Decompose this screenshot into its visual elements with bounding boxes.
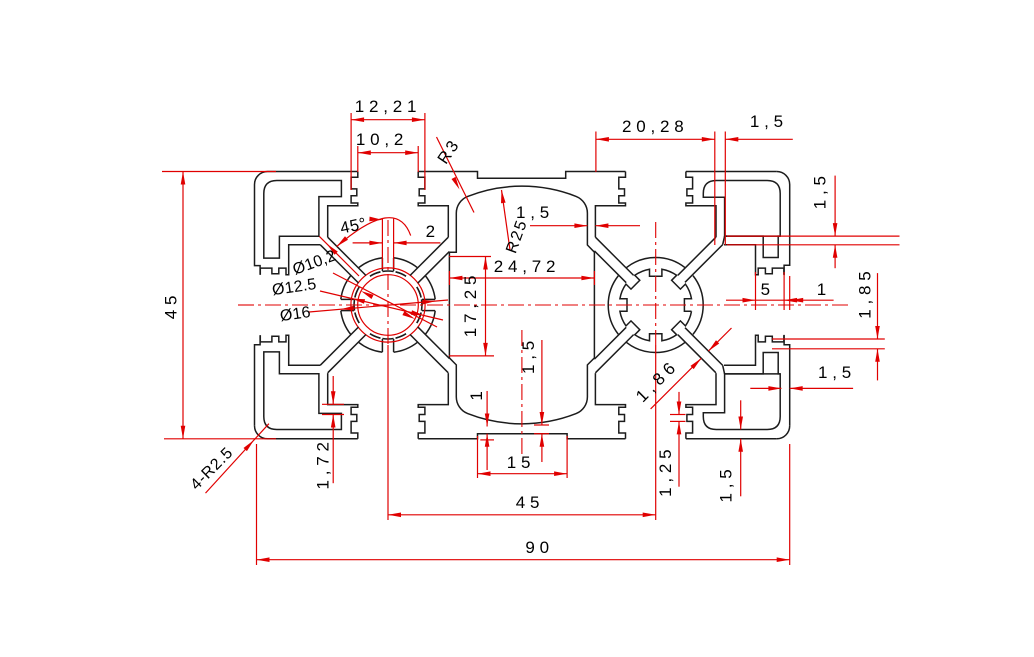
arrow 1,86 lower	[691, 358, 702, 369]
dim line 2 right part	[394, 242, 441, 244]
wire left face T-slot side B	[260, 245, 320, 275]
dim line 1,25 lower	[678, 421, 680, 486]
left boss E screw-channel entry	[422, 310, 435, 312]
leader 1,86 lower	[651, 358, 702, 409]
left bore grip ring arc	[417, 287, 421, 297]
left bore grip ring arc	[370, 334, 380, 338]
right bore vertical centerline	[655, 222, 657, 345]
wire right face T-slot side B	[724, 335, 784, 365]
arrow 1,72 upper	[331, 391, 336, 404]
ext tick 1,5 bottom-center top	[534, 424, 549, 426]
leader 1,86 upper	[708, 328, 731, 351]
arrow 20,28 right	[702, 137, 715, 142]
profile outer top-right corner arc	[777, 172, 790, 185]
dim line 1,5 tube wall right part	[595, 225, 640, 227]
dim line 1 upper	[486, 391, 488, 427]
arrow 1,5 bc lower	[540, 434, 545, 447]
left boss S screw-channel entry inner arc	[382, 338, 393, 340]
arrow 1,85 lower	[875, 349, 880, 362]
left boss W screw-channel entry inner arc	[353, 299, 355, 310]
left boss N screw-channel entry inner arc	[382, 270, 393, 272]
wire NE web to chamber connector	[723, 236, 725, 245]
ext line 24,72 right	[593, 271, 595, 285]
wire left boss SW web line B	[320, 327, 358, 365]
arrow 1,85 upper	[875, 326, 880, 339]
ext tick 17,25 top	[449, 256, 491, 258]
svg-text:1,5: 1,5	[717, 464, 736, 502]
ext line 12,21 right	[424, 113, 426, 190]
arrow D16 left	[341, 306, 354, 311]
wire left boss circle arc 4	[341, 311, 351, 335]
ext tick 1,72 bottom	[322, 414, 344, 416]
arrow 1 right	[790, 298, 803, 303]
left bore grip ring arc	[396, 272, 406, 276]
wire left boss NE web line B	[418, 252, 450, 284]
svg-text:1,85: 1,85	[856, 266, 875, 318]
wire right boss NW web line B	[594, 251, 626, 283]
arrow 90 left	[257, 557, 270, 562]
arrow R25	[501, 190, 506, 203]
left bore grip ring arc	[355, 287, 359, 297]
left bore grip ring arc	[396, 334, 406, 338]
arrow 12,21 right	[412, 117, 425, 122]
arrow 1,5 rm upper	[833, 223, 838, 236]
dim line 20,28	[596, 138, 715, 140]
svg-text:1,5: 1,5	[516, 203, 554, 222]
left bore grip ring arc	[355, 313, 359, 323]
wire bottom face left segment	[268, 438, 358, 440]
arrow 1,5 rb upper	[738, 417, 743, 430]
wire right boss circle arc 4	[693, 276, 703, 335]
arrow 45 left	[388, 513, 401, 518]
dim line 1,72 upper	[332, 376, 334, 404]
left boss E screw-channel entry inner arc	[421, 299, 423, 310]
dim line 1,72 lower	[332, 415, 334, 484]
wire right boss NE web line A	[678, 237, 716, 275]
bottom-left corner chamber	[264, 352, 342, 430]
wire right boss circle arc 1	[626, 342, 685, 352]
svg-text:2: 2	[426, 222, 440, 241]
left bore circle D10.2 (red)	[358, 275, 419, 336]
ext line 10,2 right	[417, 146, 419, 172]
ext tick 1,25 top	[670, 414, 686, 416]
left boss W screw-channel entry	[341, 298, 354, 300]
wire top face left segment	[268, 171, 358, 173]
left boss W screw-channel entry	[341, 310, 354, 312]
wire left-half bottom T-slot side A	[418, 373, 448, 439]
right bore centerline extension to 45 dim	[655, 345, 657, 520]
left boss S screw-channel entry	[381, 339, 383, 352]
dim line 1,5 rb upper	[740, 400, 742, 429]
dim line 12,21	[351, 119, 425, 121]
left bore grip ring arc	[370, 272, 380, 276]
dim line 1,85 upper	[877, 273, 879, 339]
left bore grip ring arc	[417, 287, 421, 297]
dim line 1,5 br outer	[790, 387, 853, 389]
wire left boss circle arc 5	[341, 276, 351, 300]
left bore vertical centerline	[387, 220, 389, 345]
dim line 1,5 top-right	[725, 138, 793, 140]
ext tick 17,25 bottom	[449, 355, 494, 357]
dim line 1 lower	[486, 434, 488, 470]
left bore grip ring arc	[355, 287, 359, 297]
left bore grip ring arc	[396, 272, 406, 276]
dim line 15	[478, 473, 568, 475]
arrow 1,5 rm lower	[833, 245, 838, 258]
right bore splined circle with 8 inward teeth	[620, 269, 692, 341]
dim line 1,5 rm upper	[834, 176, 836, 237]
arrow 10,2 right	[405, 150, 418, 155]
wire left face lower segment with 1mm step	[255, 335, 261, 426]
svg-text:1: 1	[817, 280, 831, 299]
arrow 45deg reference	[327, 244, 338, 255]
wire right boss SW web line A	[595, 335, 633, 373]
svg-text:1,5: 1,5	[818, 363, 856, 382]
wire right-half top T-slot side B	[686, 172, 716, 238]
svg-text:20,28: 20,28	[622, 117, 689, 136]
arrow 1,5 tube wall left	[574, 223, 587, 228]
wire top face right segment	[686, 171, 777, 173]
svg-text:1,5: 1,5	[519, 336, 538, 374]
bottom-right corner chamber	[703, 353, 780, 430]
wire left boss NE web line A	[410, 237, 448, 275]
arrow 90 right	[777, 557, 790, 562]
dim line 1,5 tube wall left part	[530, 225, 587, 227]
ext tick 1 bottom-center	[480, 439, 494, 441]
ext line 1,5 top-right / web wall	[724, 132, 726, 246]
wire right face T-slot side A	[724, 245, 784, 275]
arrow 1,5 top-right	[725, 137, 738, 142]
arrow 15 left	[478, 471, 491, 476]
arrow 5 left	[743, 298, 756, 303]
ext line 20,28 left	[595, 132, 597, 173]
arrow 5 right	[784, 298, 797, 303]
left bore grip ring arc	[370, 334, 380, 338]
wire bottom face right segment	[686, 438, 777, 440]
arrow 24,72 left	[449, 276, 462, 281]
wire right boss NE web line B	[685, 245, 723, 283]
svg-text:1,5: 1,5	[750, 112, 788, 131]
svg-text:1,5: 1,5	[810, 171, 829, 209]
arrow 1,25 upper	[677, 402, 682, 415]
central tube cavity contour	[449, 186, 594, 424]
arrow 17,25 top	[483, 257, 488, 270]
wire right boss SE web line B	[685, 328, 723, 366]
svg-text:5: 5	[761, 280, 775, 299]
arrow 45deg arc at centerline	[369, 217, 382, 222]
ext line 90 right	[789, 444, 791, 565]
ext line 45-left bottom	[164, 438, 276, 440]
ext line 2 right	[393, 219, 395, 268]
leader R25	[502, 190, 511, 250]
dim line 10,2	[358, 152, 418, 154]
svg-text:1: 1	[467, 386, 486, 400]
svg-text:1,25: 1,25	[656, 445, 675, 497]
tube vertical centerline	[521, 330, 523, 455]
ext line 24,72 left	[448, 271, 450, 285]
ext line 5 right	[783, 272, 785, 310]
svg-text:17,25: 17,25	[461, 271, 480, 338]
arrow 45deg arc left end	[337, 236, 348, 246]
arrow D12.5 left	[352, 299, 365, 304]
wire bottom face with center recess	[418, 434, 625, 439]
leader D12.5	[320, 291, 443, 320]
leader D10,2	[333, 273, 437, 327]
arrow D12.5 right	[411, 310, 424, 315]
dim line 5 lead-in	[726, 299, 756, 301]
dim line 1,5 bc upper	[541, 340, 543, 425]
wire left boss circle arc 8	[425, 276, 435, 300]
svg-text:15: 15	[507, 453, 536, 472]
dim line 2 left part	[353, 242, 383, 244]
top-left corner chamber	[264, 181, 342, 259]
profile outer bottom-left corner arc	[255, 426, 268, 439]
arrow 12,21 left	[351, 117, 364, 122]
wire right boss circle arc 2	[608, 276, 618, 335]
svg-text:45: 45	[162, 291, 181, 320]
arrow 1,5 tube wall right	[595, 223, 608, 228]
arrow D16 right	[422, 300, 435, 305]
dim line 17,25	[485, 257, 487, 356]
arrow 10,2 left	[358, 150, 371, 155]
left bore circle D12.5 (red)	[351, 268, 425, 342]
ext line 2 left	[381, 219, 383, 268]
dim line 1,25 upper	[678, 392, 680, 415]
ext line 20,28 right / web wall	[714, 132, 716, 246]
wire left boss circle arc 2	[394, 342, 418, 352]
svg-text:24,72: 24,72	[494, 257, 561, 276]
wire left boss NW web line A	[328, 237, 366, 275]
wire left boss circle arc 3	[359, 342, 383, 352]
arrow 24,72 right	[581, 276, 594, 281]
wire SE web to chamber connector	[723, 365, 725, 374]
left boss N screw-channel entry	[393, 258, 395, 271]
svg-text:10,2: 10,2	[356, 130, 408, 149]
dim line 1,85 lower	[877, 349, 879, 381]
top-right corner chamber	[703, 181, 780, 258]
ext line 15 right	[566, 436, 568, 478]
arrow R3	[452, 177, 460, 190]
wire right boss SE web line A	[678, 335, 716, 373]
wire right boss circle arc 3	[626, 258, 685, 268]
arrow 1 lower	[485, 434, 490, 447]
wire left boss NW web line B	[320, 245, 358, 283]
arrow 1,5 br inner	[768, 386, 781, 391]
profile outer bottom-right corner arc	[777, 426, 790, 439]
wire left face T-slot side A	[260, 335, 320, 365]
wire bottom-right chamber ceiling	[725, 373, 781, 375]
arrow 1,25 lower	[677, 421, 682, 434]
svg-text:45: 45	[516, 493, 545, 512]
wire right-half bottom T-slot side B	[595, 373, 625, 439]
wire right boss SW web line B	[594, 327, 626, 359]
svg-text:1,72: 1,72	[314, 437, 333, 489]
dim line 1 right	[784, 299, 834, 301]
dim line 90	[257, 559, 790, 561]
arrow 15 right	[554, 471, 567, 476]
wire left-half bottom T-slot side B	[328, 373, 358, 439]
wire right-half bottom T-slot side A	[686, 373, 716, 439]
arrow 17,25 bottom	[483, 343, 488, 356]
arrow 1,72 lower	[331, 415, 336, 428]
ext line 12,21 left	[350, 113, 352, 190]
wire right face upper with 1mm step	[784, 185, 790, 276]
left boss N screw-channel entry	[381, 258, 383, 271]
wire right-half top T-slot side A	[595, 172, 625, 238]
wire left-half top T-slot side A	[328, 172, 358, 238]
svg-text:12,21: 12,21	[355, 97, 422, 116]
wire right face lower with 1mm step	[784, 335, 790, 426]
left bore grip ring arc	[355, 313, 359, 323]
leader D16	[309, 300, 448, 312]
dim arc 45deg	[337, 218, 411, 247]
leader R3	[437, 137, 475, 213]
ext line 5 left	[755, 272, 757, 310]
ext line 1 right edge	[789, 276, 791, 310]
arrow 1,5 br outer	[790, 386, 803, 391]
arrow D10,2 right	[402, 311, 415, 319]
wire top-right chamber floor	[725, 235, 781, 237]
ext line 1,5 rm top	[727, 235, 900, 237]
ext line 1,85 bottom	[772, 348, 885, 350]
wire top face with center recess	[418, 172, 625, 179]
wire left boss SE web line A	[410, 335, 448, 373]
wire left boss SW web line A	[328, 335, 366, 373]
ext line 45-left top	[162, 171, 276, 173]
arrow 45 right	[643, 513, 656, 518]
ext tick 1,25 bottom	[670, 420, 686, 422]
wire left face upper segment with 1mm step	[255, 185, 261, 275]
ext tick 1,5 bottom-center bottom	[534, 433, 549, 435]
dim line 45 left	[182, 172, 184, 439]
ext line 1,5 rm bottom	[727, 244, 900, 246]
dim line 24,72	[449, 277, 594, 279]
ext tick 1,72 top	[322, 403, 344, 405]
arrow 1,5 rb lower	[738, 439, 743, 452]
left bore grip ring arc	[396, 334, 406, 338]
arrow 45-left top	[181, 172, 186, 185]
arrow 4-R2.5	[244, 440, 255, 451]
wire left boss circle arc 7	[394, 258, 418, 268]
left bore centerline extension to 45 dim	[387, 345, 389, 520]
arrow D10,2 left	[361, 291, 374, 299]
ext line 1,85 top	[772, 338, 885, 340]
dim line 5	[756, 299, 785, 301]
leader 4-R2.5	[206, 424, 269, 493]
arrow 1 upper	[485, 414, 490, 427]
dim line 1,5 rb lower	[740, 439, 742, 497]
left boss S screw-channel entry	[393, 339, 395, 352]
arrow 2 right	[394, 241, 407, 246]
reference line 45deg chamfer	[319, 236, 359, 276]
left bore grip ring arc	[417, 313, 421, 323]
wire right boss NW web line A	[595, 237, 633, 275]
dim line 1,5 bc lower	[541, 434, 543, 462]
arrow 20,28 left	[596, 137, 609, 142]
arrow 2 left	[369, 241, 382, 246]
dim line 45 horizontal	[388, 514, 656, 516]
wire left boss circle arc 6	[359, 258, 383, 268]
arrow 1,5 bc upper	[540, 412, 545, 425]
wire left boss SE web line B	[418, 327, 450, 359]
left bore grip ring arc	[417, 313, 421, 323]
wire left-half top T-slot side B	[418, 172, 448, 238]
svg-text:90: 90	[525, 538, 554, 557]
dim line 1,5 rm lower	[834, 245, 836, 268]
left boss E screw-channel entry	[422, 298, 435, 300]
arrow 45-left bottom	[181, 426, 186, 439]
ext line 15 left	[477, 436, 479, 478]
profile outer top-left corner arc	[255, 172, 268, 185]
wire left boss circle arc 1	[425, 311, 435, 335]
left bore grip ring arc	[370, 272, 380, 276]
horizontal centerline	[238, 304, 852, 306]
ext line 10,2 left	[357, 146, 359, 172]
arrow 1,86 upper	[708, 340, 719, 351]
dim line 1,5 br inner	[750, 387, 781, 389]
ext line 90 left	[256, 444, 258, 565]
